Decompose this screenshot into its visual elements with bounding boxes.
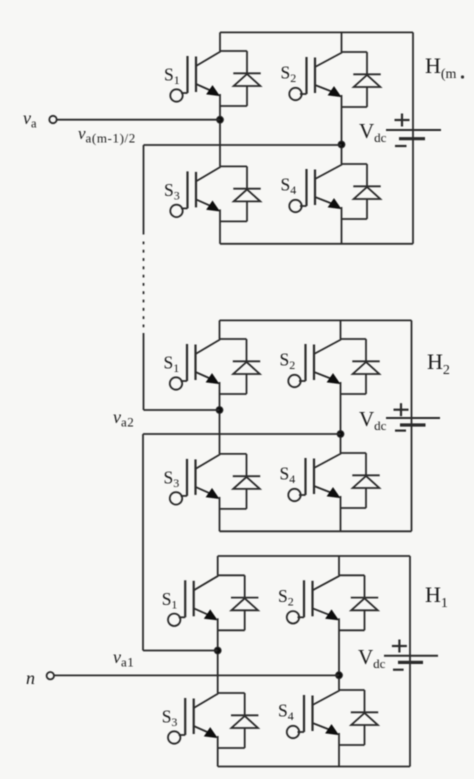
- DC source Vdc of H2: plus sign: [394, 409, 409, 411]
- svg-text:n: n: [26, 668, 35, 688]
- DC source Vdc of H2: long positive plate: [386, 417, 440, 419]
- node: right leg midpoint junction of H1: [336, 672, 343, 679]
- label H(m) subscript continuation dot: [461, 75, 464, 78]
- DC source Vdc of H(m): long positive plate: [386, 129, 441, 131]
- H-bridge cell H1: bottom rail: [218, 766, 410, 768]
- DC source Vdc of H1: short negative plate: [398, 661, 423, 664]
- H-bridge cell H(m): right leg upper wire: [341, 32, 343, 52]
- transistor S2 (H1) (IGBT): [287, 575, 365, 675]
- H-bridge cell H(m): right DC rail: [412, 32, 414, 243]
- DC source Vdc of H(m): plus sign: [395, 119, 410, 121]
- node: right leg midpoint junction of H2: [337, 431, 344, 438]
- wire: vertical drop from node va(m-1)/2, upper solid part: [143, 145, 145, 235]
- diode D3 (antiparallel with S3 (H1)): [218, 693, 259, 748]
- H-bridge cell H(m): left leg wire between switches: [219, 120, 221, 167]
- diode D4 (antiparallel with S4 (H2)): [341, 453, 380, 508]
- transistor S2 (H(m)) (IGBT): [289, 52, 367, 145]
- H-bridge cell H(m): right leg wire between switches: [341, 145, 343, 165]
- transistor S2 (H2) (IGBT): [288, 339, 366, 434]
- transistor S4 (H(m)) (IGBT): [289, 164, 367, 244]
- diode D3 (antiparallel with S3 (H(m))): [220, 166, 261, 221]
- DC source Vdc of H(m): short negative plate: [399, 137, 425, 140]
- DC source Vdc of H2: short negative plate: [400, 423, 426, 426]
- wire: va terminal to left leg midpoint of top bridge: [57, 119, 220, 121]
- transistor S4 (H1) (IGBT): [287, 690, 365, 767]
- diode D1 (antiparallel with S1 (H1)): [218, 575, 259, 630]
- DC source Vdc of H(m): minus sign: [395, 145, 407, 147]
- H-bridge cell H1: right leg upper wire: [338, 556, 340, 575]
- terminal va: open circle: [49, 116, 56, 123]
- diode D3 (antiparallel with S3 (H2)): [220, 454, 261, 509]
- transistor S3 (H(m)) (IGBT): [170, 166, 247, 243]
- wire: n terminal to right leg midpoint of H1: [54, 674, 339, 676]
- H-bridge cell H1: left leg wire between switches: [217, 651, 219, 694]
- wire: vertical into H2, lower solid part: [143, 333, 145, 410]
- H-bridge cell H(m): top rail: [220, 31, 413, 33]
- H-bridge cell H(m): left leg upper wire: [219, 32, 221, 51]
- diode D2 (antiparallel with S2 (H2)): [341, 339, 380, 394]
- diode D2 (antiparallel with S2 (H1)): [339, 575, 378, 630]
- H-bridge cell H2: right leg upper wire: [340, 320, 342, 339]
- node: left leg midpoint junction of H(m): [217, 116, 224, 123]
- wire: horizontal into left leg midpoint of H2 (node va2): [144, 409, 220, 411]
- H-bridge cell H2: left leg wire between switches: [219, 410, 221, 454]
- DC source Vdc of H1: long positive plate: [384, 655, 438, 657]
- transistor S3 (H1) (IGBT): [168, 693, 245, 767]
- node: left leg midpoint junction of H2: [216, 407, 223, 414]
- H-bridge cell H2: right leg wire between switches: [340, 434, 342, 453]
- diode D1 (antiparallel with S1 (H2)): [220, 339, 261, 394]
- diode D4 (antiparallel with S4 (H(m))): [342, 164, 381, 219]
- DC source Vdc of H1: plus sign: [392, 645, 407, 647]
- transistor S1 (H1) (IGBT): [168, 575, 245, 650]
- transistor S1 (H2) (IGBT): [170, 339, 247, 410]
- wire: vertical drop from H2 to H1: [142, 434, 144, 651]
- transistor S3 (H2) (IGBT): [170, 454, 247, 531]
- H-bridge cell H2: left leg upper wire: [219, 320, 221, 339]
- H-bridge cell H2: top rail: [220, 319, 412, 321]
- wire: H2 right midpoint to left drop: [143, 433, 341, 435]
- H-bridge cell H1: right leg wire between switches: [338, 675, 340, 690]
- H-bridge cell H1: right DC rail: [409, 556, 411, 767]
- transistor S4 (H2) (IGBT): [288, 453, 366, 531]
- diode D4 (antiparallel with S4 (H1)): [339, 690, 378, 745]
- wire: horizontal into left leg midpoint of H1 (node va1): [143, 650, 218, 652]
- diode D1 (antiparallel with S1 (H(m))): [220, 51, 261, 106]
- wire: top bridge right midpoint to left drop (node va(m-1)/2): [144, 144, 342, 146]
- diode D2 (antiparallel with S2 (H(m))): [342, 52, 381, 107]
- wire: dotted continuation (cells omitted): [143, 242, 145, 328]
- terminal n: open circle: [47, 672, 54, 679]
- DC source Vdc of H1: minus sign: [393, 669, 404, 671]
- transistor S1 (H(m)) (IGBT): [170, 51, 247, 120]
- H-bridge cell H1: left leg upper wire: [217, 556, 219, 575]
- node: left leg midpoint junction of H1: [214, 647, 221, 654]
- node: right leg midpoint junction of H(m): [338, 141, 345, 148]
- H-bridge cell H2: bottom rail: [220, 530, 412, 532]
- H-bridge cell H(m): bottom rail: [220, 243, 413, 245]
- H-bridge cell H2: right DC rail: [411, 320, 413, 531]
- H-bridge cell H1: top rail: [218, 555, 410, 557]
- DC source Vdc of H2: minus sign: [395, 430, 406, 432]
